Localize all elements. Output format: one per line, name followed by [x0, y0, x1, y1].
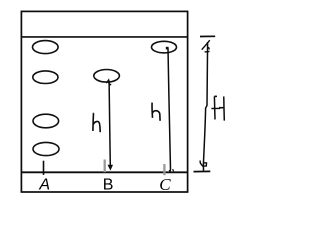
spot A2	[33, 71, 58, 84]
H measure bottom bar	[194, 170, 211, 172]
hand-drawn up arrowhead (top of H line)	[202, 40, 210, 52]
measure line lane C	[168, 49, 171, 170]
origin tick B (gray)	[104, 160, 106, 173]
hand-drawn down arrowhead (bottom of H line)	[200, 161, 207, 167]
label h (lane B)	[93, 113, 100, 132]
spot B	[94, 70, 120, 83]
arrowhead up into spot B	[106, 80, 110, 85]
H measure top bar	[200, 35, 215, 37]
baseline	[21, 171, 187, 173]
measure line lane B	[109, 81, 110, 166]
arrowhead down at baseline B	[108, 165, 112, 170]
svg-text:C: C	[159, 175, 171, 194]
spot A1	[33, 41, 59, 54]
svg-text:B: B	[103, 177, 114, 194]
label h (lane C)	[152, 103, 160, 121]
H measure vertical line	[203, 42, 207, 171]
TLC plate outline	[21, 11, 187, 192]
svg-text:A: A	[38, 176, 50, 193]
spot A4	[33, 142, 59, 155]
spot A3	[33, 114, 59, 128]
origin tick C (gray)	[163, 164, 165, 175]
label H	[211, 96, 224, 120]
solvent front line	[21, 36, 187, 38]
arrowhead down at baseline C	[169, 169, 173, 172]
origin tick A	[43, 161, 45, 175]
spot C	[152, 41, 177, 53]
arrowhead blob in spot C	[166, 47, 169, 50]
